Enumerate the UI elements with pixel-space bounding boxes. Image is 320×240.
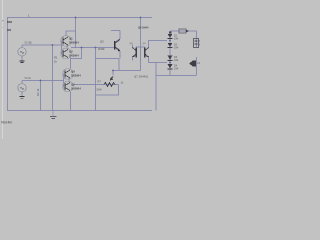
battery V1 plates	[7, 22, 12, 30]
wire ground bottom rail	[7, 110, 152, 112]
wire Q6 emitter down x70	[70, 92, 72, 111]
diode D4	[168, 64, 179, 71]
wire rail drop x140	[140, 18, 142, 47]
junction dots	[40, 17, 171, 82]
wire node A horizontal y47	[71, 47, 114, 49]
base tie for pair	[136, 46, 145, 48]
wire source1 stubs	[21, 45, 23, 48]
ground for V3	[20, 97, 25, 99]
wire long vertical x95	[95, 48, 97, 111]
svg-text:V3 1k: V3 1k	[25, 77, 32, 80]
wire base bracket pair A	[61, 41, 63, 55]
wire source2 stubs	[21, 81, 23, 84]
wire vertical from top rail x75	[75, 18, 77, 48]
ground symbol under rail	[50, 117, 57, 119]
wire x119 down	[118, 59, 120, 71]
svg-text:2N3904: 2N3904	[69, 54, 79, 58]
wire input1 horizontal	[22, 44, 61, 46]
wire resistor R1 branch x52	[52, 45, 54, 111]
transistor pair Q6 (left, pnp)	[132, 45, 136, 61]
transistor Q7 (right, npn)	[145, 45, 149, 63]
wire drop x81	[81, 48, 83, 59]
svg-text:50%: 50%	[97, 88, 103, 92]
transistor Q4	[63, 69, 82, 80]
wire center vertical through pair	[140, 46, 142, 62]
svg-text:Vtot 4m: Vtot 4m	[1, 121, 12, 125]
junction chain top	[169, 31, 172, 33]
svg-text:R2 1k: R2 1k	[36, 88, 40, 96]
svg-text:1N4: 1N4	[174, 68, 179, 71]
svg-text:2N39: 2N39	[98, 47, 105, 51]
wire short y58 left	[71, 58, 82, 60]
transistor Q1	[61, 36, 80, 47]
wire Q1 collector to rail drop	[66, 31, 76, 36]
svg-text:Q7 2N4401: Q7 2N4401	[134, 75, 149, 79]
svg-text:2N3904: 2N3904	[71, 87, 81, 91]
wire pot top stub	[112, 71, 114, 76]
svg-text:LS: LS	[197, 61, 200, 65]
diode D3	[168, 56, 179, 63]
wire A1 emitter to A2 base	[66, 45, 68, 50]
wire Q5 collector to pot	[74, 84, 119, 86]
wire y40 to diode chain	[149, 41, 167, 45]
wire right chain vertical	[196, 31, 198, 48]
potentiometer R7	[97, 77, 124, 92]
wire battery branch left	[7, 18, 9, 111]
svg-text:2N3904: 2N3904	[69, 41, 79, 45]
svg-text:8: 8	[199, 44, 200, 47]
wire base bracket pair B	[63, 74, 65, 88]
speaker LS1	[189, 61, 200, 67]
wire B1 emitter to B2 base	[68, 78, 70, 83]
wire top box horizontal	[170, 30, 197, 32]
diode D1	[168, 34, 179, 41]
transistor Q3	[98, 40, 120, 52]
wire Q3 emitter down	[116, 49, 120, 59]
svg-text:Q3: Q3	[100, 40, 104, 44]
transistor Q2	[61, 48, 80, 59]
background canvas	[0, 0, 200, 139]
svg-text:2N3904: 2N3904	[71, 74, 81, 78]
svg-text:1N4: 1N4	[174, 59, 179, 62]
wire pot wiper loop	[96, 85, 119, 96]
wire resistor R2 branch x40	[40, 81, 42, 111]
svg-text:+: +	[2, 19, 4, 23]
wire VCC top rail	[7, 17, 152, 19]
wire bottom box horizontal	[156, 75, 197, 77]
wire diode chain vertical x170	[169, 31, 171, 75]
wire pair bottom to y70	[140, 62, 142, 71]
wire y70 horizontal	[113, 70, 141, 72]
svg-text:R7: R7	[98, 80, 102, 84]
wire branch y58 right	[96, 58, 120, 60]
wire Q3 collector up	[116, 31, 120, 42]
wire Q4 collector stub	[70, 57, 72, 69]
wire input2 horizontal	[22, 80, 63, 82]
resistor R8 right chain	[194, 39, 203, 48]
transistor Q5	[63, 81, 82, 92]
svg-text:Q6 2N44: Q6 2N44	[138, 26, 149, 30]
wire Q3 collector label stub	[111, 30, 120, 32]
wire output node y62 to diode chain	[149, 62, 167, 64]
ground for V2	[20, 61, 25, 63]
left window edge highlight	[2, 0, 3, 139]
svg-text:1N4: 1N4	[174, 46, 179, 49]
diode D2	[168, 43, 179, 50]
source V3 circle	[18, 84, 26, 92]
svg-text:-: -	[2, 26, 3, 30]
source V2 circle	[18, 48, 26, 56]
wire ground riser x156	[155, 63, 157, 111]
svg-text:1N4: 1N4	[174, 37, 179, 40]
fuse / switch on top box	[179, 29, 189, 33]
